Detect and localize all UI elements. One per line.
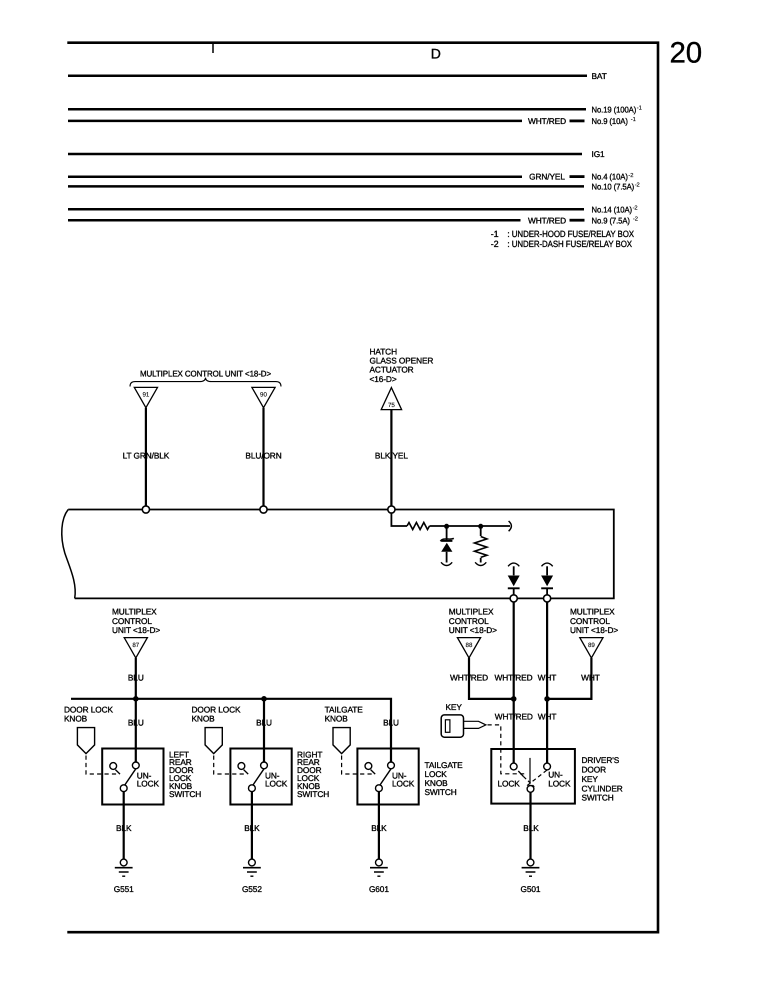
svg-text:No.4 (10A): No.4 (10A)	[592, 172, 629, 182]
svg-text:BLK: BLK	[371, 823, 387, 833]
switch fixed contact	[238, 763, 245, 770]
node: WHT leaves bus	[544, 595, 551, 602]
switch lever	[125, 769, 136, 785]
connector arc below resistor R2	[475, 562, 486, 565]
svg-text:KNOB: KNOB	[64, 714, 88, 724]
svg-text:GRN/YEL: GRN/YEL	[529, 172, 565, 182]
svg-text:-2: -2	[633, 204, 638, 211]
wire WHT/RED from pin 88	[469, 658, 514, 699]
switch top terminal	[388, 762, 395, 769]
right rear door lock knob switch box	[230, 749, 291, 805]
svg-text:BLU: BLU	[128, 672, 144, 682]
svg-text:75: 75	[388, 402, 395, 409]
wire inside bus box from node to resistor	[391, 513, 407, 526]
svg-text:-1: -1	[637, 105, 642, 111]
key symbol head	[441, 715, 463, 737]
wire	[513, 566, 515, 575]
wire WHT bus-to-switch	[546, 602, 548, 763]
lever throw to LOCK (dashed)	[524, 777, 535, 787]
svg-text:LOCK: LOCK	[137, 779, 160, 789]
ground G552	[249, 859, 256, 866]
junction dot	[261, 696, 267, 702]
LOCK contact terminal	[510, 763, 517, 770]
svg-text:90: 90	[260, 392, 267, 399]
svg-text:WHT: WHT	[538, 672, 557, 682]
svg-text:KEY: KEY	[446, 702, 463, 712]
svg-text:BLU: BLU	[256, 717, 272, 727]
wire WHT/RED bus-to-switch	[513, 602, 515, 763]
connector arc above diode D1	[440, 538, 453, 541]
svg-text:KNOB: KNOB	[192, 714, 216, 724]
contact tick	[115, 770, 120, 775]
brace grouping pins 91 and 90	[130, 378, 281, 387]
svg-text:No.9 (7.5A): No.9 (7.5A)	[592, 215, 631, 225]
mechanical link (dashed) left rear	[86, 756, 117, 775]
tailgate knob symbol	[333, 728, 350, 754]
contact tick	[371, 770, 376, 775]
svg-text:LOCK: LOCK	[548, 779, 571, 789]
page border frame (top, right, bottom)	[67, 43, 658, 933]
switch lever (neutral)	[529, 758, 531, 783]
wire BLU from pin 87	[135, 658, 137, 699]
wire stub	[570, 120, 585, 123]
svg-text:-2: -2	[635, 182, 640, 189]
wire BLU to left rear switch	[135, 699, 137, 762]
svg-text::: :	[507, 239, 509, 249]
wire	[546, 566, 548, 575]
ground G551	[120, 859, 127, 866]
wire down to diode D1	[446, 526, 448, 541]
diode (triangle, pointing down)	[541, 576, 553, 587]
svg-text:<16-D>: <16-D>	[370, 374, 397, 384]
contact tick	[244, 770, 249, 775]
svg-text:WHT/RED: WHT/RED	[528, 116, 566, 126]
switch common terminal	[527, 786, 534, 793]
svg-text:LOCK: LOCK	[265, 779, 288, 789]
diode D1 (cathode bar)	[441, 540, 452, 542]
connector pin 88 (multiplex control unit)	[457, 638, 480, 658]
door lock knob symbol (left rear)	[77, 728, 94, 754]
svg-text:UNDER-DASH FUSE/RELAY BOX: UNDER-DASH FUSE/RELAY BOX	[512, 239, 632, 249]
junction dot	[544, 696, 550, 702]
svg-text:91: 91	[142, 392, 149, 399]
svg-text:D: D	[431, 46, 441, 62]
svg-text:UNIT <18-D>: UNIT <18-D>	[112, 625, 160, 635]
wire below diode D1	[446, 552, 448, 563]
diode cathode bar	[541, 587, 553, 589]
wire BAT feed	[68, 75, 587, 78]
wire down to resistor R2	[480, 526, 482, 536]
svg-text:No.14 (10A): No.14 (10A)	[592, 204, 633, 214]
svg-text:BLK: BLK	[523, 823, 539, 833]
wire fuse No.10 feed	[68, 185, 584, 188]
node: BLU/ORN joins bus	[260, 506, 267, 513]
key symbol slot	[445, 720, 450, 733]
wire to bus box bottom node	[513, 588, 515, 595]
wire to bus box bottom node	[546, 588, 548, 595]
connector pin 87 (multiplex control unit)	[124, 638, 147, 658]
door lock knob symbol (right rear)	[205, 728, 222, 754]
wire fuse No.19 feed	[68, 108, 586, 111]
svg-text:No.19 (100A): No.19 (100A)	[592, 104, 637, 114]
driver door key cylinder switch box	[491, 749, 575, 804]
wire LT GRN/BLK from pin 91	[145, 408, 147, 507]
left rear door lock knob switch box	[102, 749, 163, 805]
svg-text:BLK: BLK	[116, 823, 132, 833]
key symbol blade	[464, 721, 486, 728]
LOCK contact tick	[518, 771, 523, 777]
wire BLK from right rear switch	[251, 792, 253, 860]
BLU bus wire	[71, 699, 391, 762]
mechanical link (dashed) tailgate	[342, 756, 373, 775]
svg-text:BLU/ORN: BLU/ORN	[245, 450, 281, 460]
wire BLK/YEL from pin 75	[390, 410, 392, 507]
svg-text:SWITCH: SWITCH	[582, 793, 614, 803]
diode (triangle, pointing down)	[508, 576, 520, 587]
svg-text:WHT: WHT	[538, 712, 557, 722]
connector arc above diode	[542, 563, 553, 566]
svg-text:89: 89	[588, 642, 595, 649]
svg-text:WHT/RED: WHT/RED	[528, 215, 566, 225]
key mechanical link (dashed)	[488, 725, 527, 774]
svg-text:BLK: BLK	[244, 823, 260, 833]
wire end continuation mark	[509, 521, 512, 531]
svg-text:UNIT <18-D>: UNIT <18-D>	[449, 625, 497, 635]
svg-text:SWITCH: SWITCH	[297, 789, 329, 799]
connector arc above diode	[508, 563, 519, 566]
switch bottom terminal	[376, 785, 383, 792]
wire IG1 feed	[68, 153, 582, 156]
switch lever	[380, 769, 391, 785]
tailgate lock knob switch box	[357, 749, 418, 805]
svg-text::: :	[507, 229, 509, 239]
svg-text:MULTIPLEX CONTROL UNIT <18-D>: MULTIPLEX CONTROL UNIT <18-D>	[140, 368, 271, 378]
svg-text:BLU: BLU	[383, 717, 399, 727]
connector pin 89 (multiplex control unit)	[580, 638, 603, 658]
svg-text:-2: -2	[633, 215, 638, 222]
wire stub	[570, 219, 585, 222]
svg-text:UNIT <18-D>: UNIT <18-D>	[570, 625, 618, 635]
junction dot	[511, 696, 517, 702]
svg-text:UNDER-HOOD FUSE/RELAY BOX: UNDER-HOOD FUSE/RELAY BOX	[512, 229, 634, 239]
ground G601	[376, 859, 383, 866]
diode cathode bar	[508, 587, 520, 589]
wire below resistor R2	[480, 558, 482, 563]
junction dot	[444, 524, 449, 529]
svg-text:WHT: WHT	[581, 672, 600, 682]
svg-text:G501: G501	[521, 884, 541, 894]
lever throw to UN-LOCK (dashed)	[527, 770, 547, 786]
svg-text:87: 87	[132, 642, 139, 649]
switch fixed contact	[365, 763, 372, 770]
junction dot	[478, 524, 483, 529]
svg-text:-2: -2	[628, 172, 633, 179]
wire WHT/RED to fuse No.9 (7.5A)	[68, 219, 521, 222]
wire BLU/ORN from pin 90	[262, 408, 264, 507]
svg-text:SWITCH: SWITCH	[169, 789, 201, 799]
svg-text:KNOB: KNOB	[325, 714, 349, 724]
diode D1 (triangle, pointing up)	[441, 543, 452, 552]
switch top terminal	[132, 762, 139, 769]
wire WHT from pin 89	[547, 658, 591, 699]
svg-text:G552: G552	[242, 884, 262, 894]
node: LT GRN/BLK joins bus	[142, 506, 149, 513]
connector pin 75 (hatch glass opener actuator)	[381, 388, 401, 410]
wire BLK from left rear switch	[123, 792, 125, 860]
svg-text:No.10 (7.5A): No.10 (7.5A)	[592, 182, 635, 192]
svg-text:SWITCH: SWITCH	[425, 787, 457, 797]
resistor R2 (vertical)	[475, 537, 487, 558]
svg-text:-1: -1	[491, 229, 499, 239]
svg-text:WHT/RED: WHT/RED	[450, 672, 488, 682]
connector pin 90 (multiplex control unit)	[252, 387, 275, 407]
node: WHT/RED leaves bus	[510, 595, 517, 602]
bus box outline with torn left edge	[68, 510, 614, 599]
resistor (horizontal)	[407, 523, 430, 530]
wire stub	[570, 175, 585, 178]
ground G501	[527, 859, 534, 866]
svg-text:BLU: BLU	[128, 717, 144, 727]
torn (wavy) left edge	[62, 510, 75, 599]
svg-text:WHT/RED: WHT/RED	[494, 672, 532, 682]
wire WHT/RED to fuse No.9	[68, 120, 522, 123]
wire GRN/YEL to fuse No.4	[68, 175, 522, 178]
section tick mark	[212, 44, 214, 53]
svg-text:-2: -2	[491, 239, 499, 249]
wire BLK from tailgate switch	[378, 792, 380, 860]
wire to junction nodes	[430, 525, 511, 527]
svg-text:G601: G601	[369, 884, 389, 894]
wire BLU to right rear switch	[263, 699, 265, 762]
connector pin 91 (multiplex control unit)	[134, 387, 157, 407]
svg-text:IG1: IG1	[592, 149, 606, 159]
svg-text:BAT: BAT	[592, 71, 607, 81]
svg-text:20: 20	[670, 37, 703, 70]
svg-text:G551: G551	[114, 884, 134, 894]
switch bottom terminal	[120, 785, 127, 792]
connector arc below diode D1	[441, 562, 452, 565]
svg-text:LT GRN/BLK: LT GRN/BLK	[123, 450, 170, 460]
junction dot	[133, 696, 139, 702]
svg-text:LOCK: LOCK	[498, 779, 521, 789]
mechanical link (dashed) right rear	[214, 756, 245, 775]
svg-text:88: 88	[466, 642, 473, 649]
switch top terminal	[261, 762, 268, 769]
wire BLK from key cylinder switch	[529, 792, 531, 859]
svg-text:BLK/YEL: BLK/YEL	[375, 450, 408, 460]
switch bottom terminal	[249, 785, 256, 792]
svg-text:WHT/RED: WHT/RED	[495, 712, 533, 722]
UN-LOCK contact terminal	[544, 763, 551, 770]
wire fuse No.14 feed	[68, 208, 584, 211]
switch fixed contact	[110, 763, 117, 770]
svg-text:LOCK: LOCK	[392, 779, 415, 789]
svg-text:-1: -1	[631, 117, 636, 123]
svg-text:No.9 (10A): No.9 (10A)	[592, 116, 629, 126]
node: BLK/YEL joins bus	[388, 506, 395, 513]
switch lever	[253, 769, 264, 785]
